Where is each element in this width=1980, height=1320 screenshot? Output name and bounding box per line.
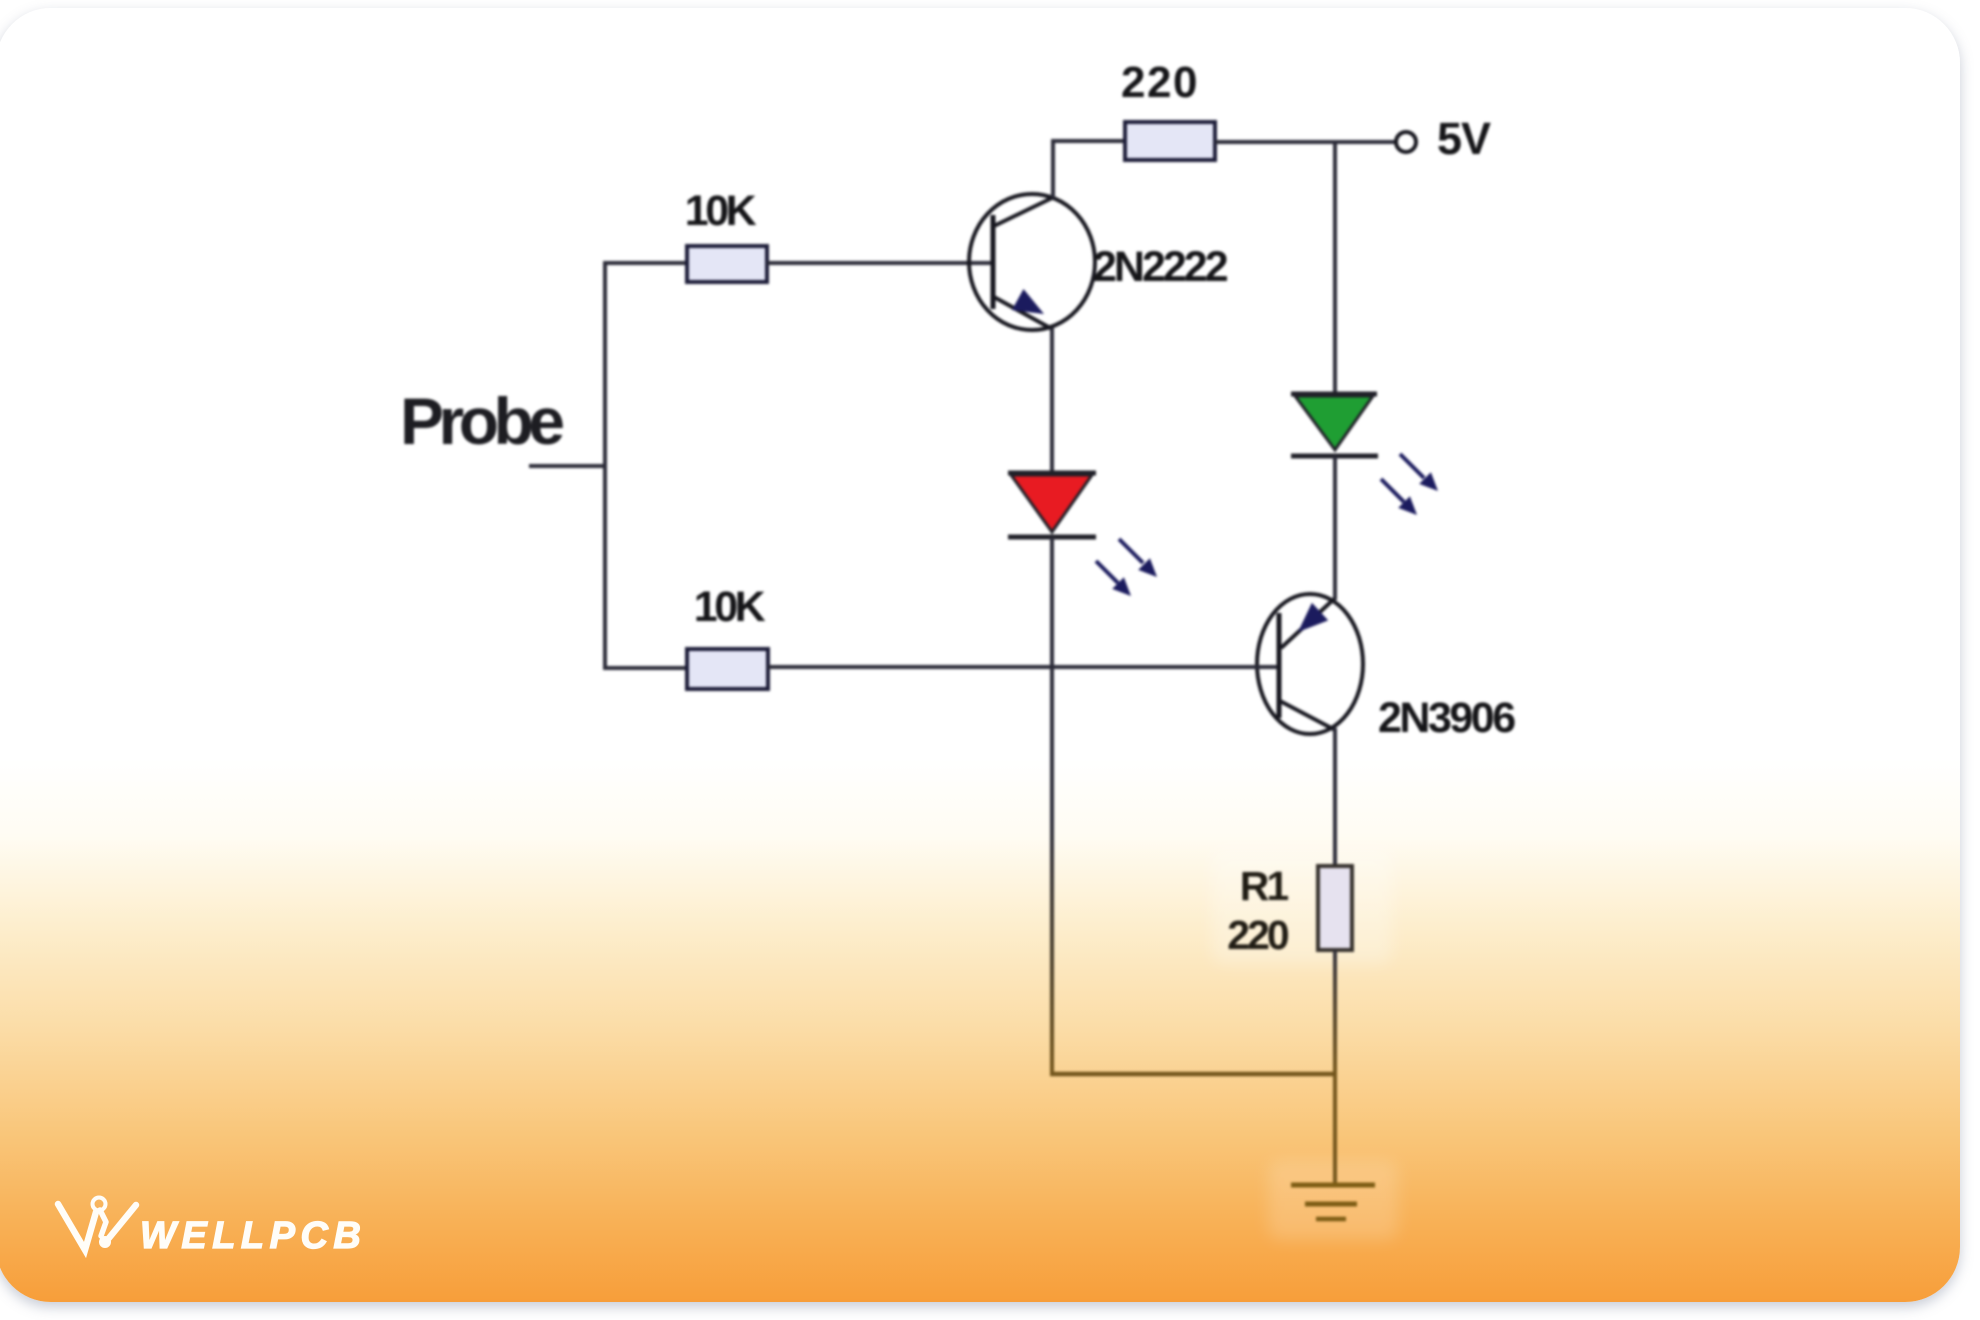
transistor Q1 2N2222 circle [969, 194, 1095, 330]
transistor Q1 collector lead [994, 197, 1054, 226]
wire green LED to Q2 emitter [1333, 456, 1337, 600]
resistor R1 body [1318, 866, 1352, 950]
wire junction down to ground [1333, 1074, 1337, 1187]
LED D1 red anode bar [1008, 471, 1096, 476]
wire probe vertical riser [603, 262, 607, 670]
wire bottom 10K left [603, 666, 689, 670]
transistor Q1 base bar [991, 215, 996, 309]
transistor Q2 collector lead [1280, 701, 1335, 730]
faint white halo behind R1 labels [1212, 848, 1392, 964]
resistor 10K (bottom) body [687, 649, 768, 689]
wire top 10K right to Q1 base [767, 261, 991, 265]
transistor Q2 emitter arrow [1298, 603, 1328, 632]
LED D1 red triangle [1011, 475, 1092, 532]
LED D1 red cathode bar [1008, 535, 1096, 540]
LED D2 light ray arrow 2 [1381, 479, 1417, 515]
wire top 10K left [603, 261, 689, 265]
wire Q1 collector up [1051, 139, 1055, 198]
LED D2 green anode bar [1291, 392, 1377, 397]
transistor Q2 2N3906 circle [1257, 594, 1363, 734]
ground symbol bar 2 [1305, 1202, 1357, 1207]
LED D2 green triangle [1295, 396, 1373, 450]
LED D1 light ray arrow 1 [1119, 539, 1157, 577]
wire probe stub [529, 464, 607, 468]
wire bottom 10K right to Q2 base [768, 665, 1277, 669]
LED D2 light ray arrow 1 [1400, 454, 1438, 491]
wire 5V rail down to green LED [1333, 142, 1337, 396]
LED D1 light ray arrow 2 [1096, 561, 1131, 596]
wire Q2 collector down to R1 [1333, 728, 1337, 868]
logo WELLPCB mark node ring [93, 1198, 106, 1211]
LED D2 green cathode bar [1291, 454, 1378, 459]
faint white halo behind ground symbol [1268, 1160, 1398, 1240]
logo WELLPCB mark left V [58, 1204, 96, 1250]
wire ground bus horizontal [1050, 1072, 1337, 1077]
wire to 220 resistor [1053, 139, 1127, 143]
transistor Q1 emitter arrow [1012, 289, 1044, 314]
transistor Q2 emitter lead [1281, 599, 1334, 648]
resistor 220 (top) body [1125, 122, 1215, 160]
ground symbol bar 1 [1291, 1183, 1375, 1188]
ground symbol bar 3 [1316, 1217, 1346, 1222]
wire red LED cathode down [1050, 537, 1054, 1076]
logo WELLPCB mark node dot [99, 1236, 111, 1248]
transistor Q1 emitter lead [994, 297, 1052, 329]
wire Q1 emitter down to red LED [1050, 328, 1054, 474]
wire R1 down to ground junction [1333, 950, 1337, 1076]
wire 220 resistor to 5V terminal [1215, 140, 1397, 144]
terminal 5V circle [1396, 132, 1416, 152]
transistor Q2 base bar [1277, 613, 1282, 718]
svg-text:WELLPCB: WELLPCB [140, 1215, 366, 1257]
logo WELLPCB mark trace [100, 1210, 106, 1236]
resistor 10K (top) body [687, 246, 767, 282]
logo WELLPCB mark right stroke [109, 1205, 136, 1238]
